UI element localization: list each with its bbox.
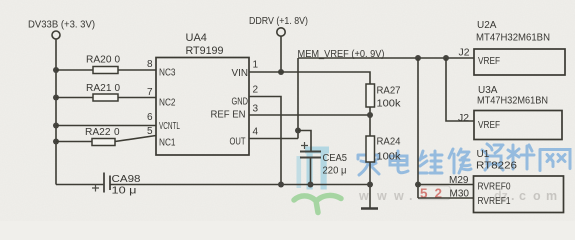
- capacitor CA98 right plate: [109, 176, 111, 191]
- node junction rail-pin5: [53, 139, 59, 145]
- wire branch down to U3A VREF: [446, 58, 474, 121]
- svg-text:o: o: [533, 189, 541, 203]
- svg-text:OUT: OUT: [230, 137, 246, 148]
- wire DV33B left rail vertical: [55, 39, 57, 185]
- svg-text:10 μ: 10 μ: [112, 186, 137, 197]
- watermark .com grey letters: [494, 189, 557, 203]
- node junction MEM_VREF to U3A branch: [443, 55, 449, 61]
- node junction CEA5-rail: [308, 182, 314, 188]
- svg-text:m: m: [546, 189, 557, 203]
- node junction DDRV-VIN: [278, 69, 284, 75]
- svg-text:3: 3: [253, 104, 259, 115]
- wire MEM_VREF vertical to OUT: [297, 58, 299, 139]
- svg-text:w: w: [393, 189, 404, 203]
- wire pin7 right: [118, 97, 156, 99]
- wire RA24 bottom lead to ground: [369, 162, 371, 208]
- svg-text:J2: J2: [459, 48, 470, 59]
- IC U1 body: [474, 176, 564, 213]
- resistor RA22 body: [92, 139, 115, 146]
- svg-text:NC3: NC3: [159, 68, 176, 79]
- capacitor CEA5 bottom plate: [300, 157, 321, 159]
- svg-text:NC1: NC1: [159, 138, 176, 149]
- wire bottom rail left segment to CA98: [56, 184, 104, 186]
- wire ground rail: [110, 184, 370, 186]
- svg-text:REF EN: REF EN: [211, 110, 246, 121]
- svg-text:MT47H32M61BN: MT47H32M61BN: [476, 33, 550, 44]
- watermark blue text 修: [449, 149, 471, 173]
- svg-text:M30: M30: [450, 189, 470, 200]
- wire pin7 left: [56, 97, 93, 99]
- watermark green open-book mark: [294, 195, 341, 212]
- resistor RA20 body: [93, 67, 118, 74]
- wire M30 into RVREF1: [418, 197, 474, 199]
- svg-text:MT47H32M61BN: MT47H32M61BN: [477, 96, 548, 107]
- svg-text:RA27: RA27: [377, 86, 401, 97]
- node junction divider REF EN: [367, 112, 373, 118]
- svg-text:DDRV (+1. 8V): DDRV (+1. 8V): [249, 15, 308, 27]
- capacitor CA98 plus mark: [92, 185, 99, 192]
- svg-text:.: .: [409, 189, 412, 203]
- svg-text:100k: 100k: [377, 99, 402, 110]
- wire pin1 VIN to RA27 top: [249, 72, 370, 84]
- IC UA4 body: [156, 58, 249, 156]
- svg-text:U2A: U2A: [477, 20, 497, 31]
- resistor RA21 body: [93, 94, 118, 101]
- wire MEM_VREF horizontal net: [298, 57, 474, 59]
- watermark blue text 电: [390, 151, 408, 173]
- wire pin5 left: [56, 141, 92, 143]
- svg-text:VCNTL: VCNTL: [159, 121, 180, 132]
- svg-text:RT9199: RT9199: [186, 45, 224, 57]
- svg-text:7: 7: [147, 87, 153, 98]
- IC U2A body: [474, 49, 565, 75]
- svg-text:2: 2: [253, 85, 259, 96]
- wire RA27 bottom to RA24 top: [369, 107, 371, 136]
- power DV33B terminal circle: [52, 31, 60, 39]
- svg-text:100k: 100k: [377, 152, 402, 163]
- svg-text:RA22: RA22: [85, 127, 111, 138]
- node junction rail-pin6: [53, 123, 59, 129]
- svg-text:w: w: [376, 189, 387, 203]
- watermark blue text 维: [419, 151, 442, 173]
- watermark blue text 家: [358, 144, 570, 175]
- svg-text:GND: GND: [232, 97, 249, 108]
- watermark blue text 资: [482, 144, 503, 170]
- node junction RA24-rail: [367, 182, 373, 188]
- svg-text:1: 1: [253, 60, 259, 71]
- node junction CEA5 tap: [295, 128, 301, 134]
- watermark blue text 料: [508, 145, 534, 169]
- svg-text:CA98: CA98: [112, 174, 142, 185]
- svg-text:CEA5: CEA5: [323, 153, 348, 164]
- svg-text:VREF: VREF: [478, 56, 500, 67]
- svg-text:0: 0: [115, 55, 121, 66]
- capacitor CEA5 top plate: [300, 151, 321, 153]
- watermark www. grey letters: [358, 189, 412, 203]
- wire pin8 left: [56, 69, 93, 71]
- capacitor CEA5 plus mark: [301, 142, 308, 149]
- svg-text:6: 6: [147, 112, 153, 123]
- svg-text:J2: J2: [458, 113, 469, 124]
- wire branch down to M29 M30: [417, 58, 419, 198]
- svg-text:220 μ: 220 μ: [323, 166, 347, 177]
- svg-text:RT8226: RT8226: [476, 161, 517, 172]
- svg-text:NC2: NC2: [159, 98, 176, 109]
- svg-text:U1: U1: [477, 149, 490, 160]
- wire CEA5 top lead: [298, 131, 311, 152]
- wire pin4 OUT to VREF vertical: [249, 138, 298, 140]
- svg-text:8: 8: [147, 59, 153, 70]
- IC U3A body: [474, 111, 562, 140]
- wire pin5 right: [115, 136, 156, 142]
- svg-text:0: 0: [114, 127, 120, 138]
- svg-text:RVREF1: RVREF1: [478, 196, 511, 207]
- resistor RA24 body: [366, 136, 375, 162]
- svg-text:RVREF0: RVREF0: [478, 182, 511, 193]
- wire M29 into RVREF0: [418, 184, 474, 186]
- node junction M29 tap: [415, 182, 421, 188]
- node junction MEM_VREF to RVREF branch: [415, 55, 421, 61]
- wire pin6: [56, 125, 156, 127]
- svg-text:UA4: UA4: [186, 32, 207, 44]
- wire pin2 GND down to ground rail: [249, 97, 281, 185]
- power DDRV terminal circle: [277, 28, 285, 36]
- watermark blue text 网: [540, 150, 570, 171]
- svg-text:RA21: RA21: [86, 83, 112, 94]
- wire pin8 right: [118, 69, 156, 71]
- svg-text:DV33B (+3. 3V): DV33B (+3. 3V): [28, 19, 95, 31]
- watermark red 52 badge: [418, 186, 451, 200]
- svg-text:4: 4: [253, 127, 259, 138]
- svg-text:RA24: RA24: [377, 137, 401, 148]
- svg-text:RA20: RA20: [86, 55, 112, 66]
- svg-text:5: 5: [147, 126, 153, 137]
- svg-text:0: 0: [115, 83, 121, 94]
- node junction rail-pin7: [53, 95, 59, 101]
- svg-text:VREF: VREF: [478, 120, 500, 131]
- svg-text:.: .: [511, 189, 514, 203]
- wire pin3 REF EN to divider node: [249, 114, 370, 116]
- svg-text:w: w: [358, 189, 369, 203]
- node junction GND-rail: [278, 182, 284, 188]
- wire CEA5 bottom lead: [310, 159, 312, 185]
- capacitor CA98 left plate: [103, 173, 105, 193]
- svg-text:VIN: VIN: [232, 68, 249, 79]
- node junction rail-pin8: [53, 67, 59, 73]
- svg-text:M29: M29: [449, 175, 469, 186]
- svg-text:c: c: [519, 189, 526, 203]
- watermark site logo (cyan monitor mark): [297, 147, 330, 190]
- ground symbol: [361, 207, 378, 210]
- resistor RA27 body: [366, 84, 375, 107]
- wire DDRV drop to VIN: [280, 36, 282, 72]
- svg-text:U3A: U3A: [478, 85, 498, 96]
